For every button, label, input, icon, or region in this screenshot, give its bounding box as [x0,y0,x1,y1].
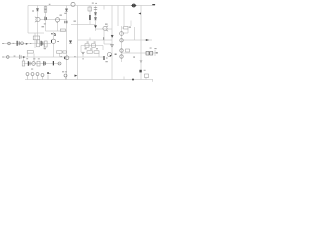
transistor Q6 base bar [63,57,66,60]
diode D2 [65,9,67,11]
wire x59 stub [34,53,60,61]
arrow output y40 [146,39,149,41]
wire resistor chain row y45.5 [81,46,103,53]
capacitor C zener plates [94,8,97,10]
resistor y51 right b [94,51,99,53]
arrow input stage [26,43,28,45]
capacitor C6 row plate [43,61,44,65]
resistor output lower [126,49,130,52]
resistor bottom right box [145,74,149,78]
wire x99 stub [98,53,100,57]
capacitor C bottom a [26,73,29,76]
resistor R y30 [60,29,65,31]
terminal input top [8,42,11,45]
capacitor C3 y67 plate [28,61,29,66]
fuse F1 top rail [132,4,135,7]
arrow left into x141 [138,13,141,15]
diode D5 zener b [94,18,96,20]
resistor load box b [150,52,153,56]
wire fb cap column x23 [24,53,28,61]
capacitor C zobel T [81,52,84,54]
diode D1 [36,9,38,11]
diode D3 vas [51,34,56,36]
transistor Q7 bias [32,62,36,66]
transistor Q6 vas [65,56,69,60]
wire driver emitter x104 [104,31,112,44]
wire input row y57 [2,56,103,58]
wire mid column x67 [66,6,68,80]
transistor marks Q5 [107,26,109,31]
ground symbol x112 [111,45,114,48]
transistor Q3 on top rail [71,2,75,6]
wire column x124 [123,6,125,27]
wire tail resistor column [57,22,59,32]
wire y40 output row [122,39,153,41]
wire diff pair base column [37,6,39,44]
resistor y51 mid b [63,51,67,53]
resistor chain left [85,44,89,47]
wire current source column [46,6,68,32]
resistor y67 dark [37,61,40,66]
wire zener column x95 [95,6,97,32]
terminal input bottom [7,56,10,59]
resistor y52 left [27,51,33,54]
wire output device column [121,26,123,62]
capacitor C bottom e [64,74,67,77]
label text specks [42,26,45,27]
wire y40 VAS row [78,39,112,41]
blob bottom x48 [47,72,49,74]
junction dot bottom rail [132,79,134,81]
transistor marks Q1 [35,17,37,22]
wire output terminal stub [154,50,156,56]
diode D8 small right [115,54,117,55]
capacitor C bottom c [36,73,39,76]
capacitor C bottom d [41,74,44,77]
wire power column x112 [111,6,113,80]
resistor chain right [92,44,96,47]
transistor Q4 base bar [50,40,53,43]
wire x83 zobel stub [82,52,84,57]
ground triangle x141 [140,61,142,63]
wire stub bottom a [28,75,66,80]
transistor Q8 driver bottom [107,53,111,57]
transistor Q2 diff right [55,18,59,22]
transistor Q1 diff left [36,17,40,21]
wire main column x77 [77,6,79,80]
transistor Q9b output [120,39,123,42]
capacitor C x67 plates [65,21,67,24]
resistor y51 right a [87,51,93,53]
resistor output emitter [124,27,129,30]
resistor fb lower x23 [22,61,25,66]
transistor Q7b [58,62,61,65]
capacitor C4 blob [53,61,54,65]
wire stub x131 [130,21,132,27]
wire bottom rail V- [25,79,153,81]
wire column x118 [117,6,119,27]
wire VAS diode column [53,32,55,57]
arrow bottom transistor [75,75,78,77]
wire diode drop x98 [71,25,112,30]
transistor Q8 arrow [110,55,112,57]
wire lower mid row y67 [24,63,61,65]
wire right column x141 [140,6,142,80]
capacitor C5 blob right column [139,70,141,73]
resistor input shunt [45,41,48,47]
wire bias column x90 [89,6,91,41]
diode D9 mid [69,41,72,44]
resistor R bias top [88,7,92,11]
wire emitter loop x128 [122,28,129,33]
resistor load box a [146,52,149,56]
capacitor C1 input plate [17,41,18,46]
wire driver column x104 [103,6,105,10]
wire bottom stub x146 [124,77,153,82]
transistor Q5 driver top [103,26,107,30]
wire input row y43 [2,43,51,45]
wire top rail V+ [28,5,155,7]
transistor Q4 input [51,39,55,43]
diode D6 [94,26,96,28]
resistor y51 mid [57,51,63,53]
wire emitter stub x44 [43,44,45,50]
wire diff pair collector link [40,19,67,21]
transistor Q10 output mid [120,49,123,52]
transistor Q9 output top [120,32,124,36]
wire left feedback drop [28,6,44,34]
transistor input jfet circle [21,42,24,45]
junction x23 [23,56,25,57]
capacitor C x45 plates [45,17,47,21]
capacitor C bottom b [31,73,34,76]
diode D4 zener a [94,13,96,15]
wire output row y53 [122,52,156,54]
resistor feedback vertical [37,40,40,47]
capacitor C2 plate [41,41,42,46]
capacitor C7 dark plate [103,56,104,60]
diode D7 arrow down x112 [111,35,113,37]
resistor feedback horizontal [33,36,39,40]
transistor Q11 output low [120,55,123,58]
terminal mark right end [152,4,155,6]
diode D bias dark bar [89,15,91,20]
wire feedback node column x35 [34,33,36,48]
resistor R stack top-left [44,7,47,9]
wire zobel column [134,27,136,40]
